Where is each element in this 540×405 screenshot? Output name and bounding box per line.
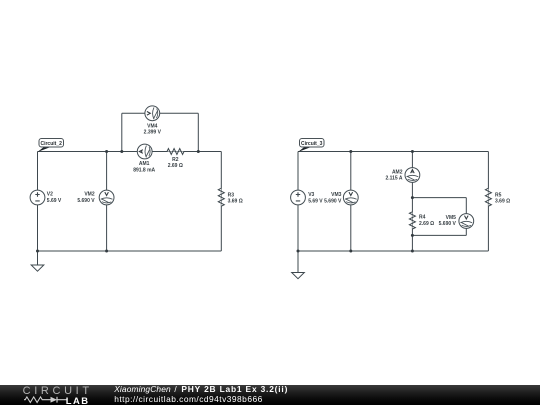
svg-text:5.69 V: 5.69 V — [47, 198, 62, 204]
wire: VM4 loop left vertical — [121, 113, 123, 151]
wire: VM4 loop top — [122, 112, 199, 114]
wire: left circuit top rail — [38, 151, 222, 153]
svg-text:2.69 Ω: 2.69 Ω — [419, 221, 434, 227]
wire: VM5 loop top — [412, 197, 466, 199]
svg-text:2.399 V: 2.399 V — [144, 130, 162, 136]
ground (right circuit) — [292, 251, 305, 279]
voltmeter VM4 (rotated) — [145, 106, 160, 121]
svg-text:V2: V2 — [47, 191, 53, 197]
footer bar — [0, 385, 540, 405]
wire: left circuit bottom rail — [38, 250, 222, 252]
CircuitLab logo text LAB — [66, 395, 90, 405]
svg-text:R2: R2 — [172, 157, 179, 163]
credit text — [114, 385, 288, 404]
svg-text:R4: R4 — [419, 214, 426, 220]
resistor R2 — [167, 149, 184, 155]
wire: VM5 loop bottom — [412, 234, 466, 236]
svg-text:2.69 Ω: 2.69 Ω — [168, 163, 183, 169]
wire: VM2 branch — [106, 152, 108, 252]
resistor R4 — [409, 212, 415, 229]
wire: VM5 loop right vertical — [465, 198, 467, 236]
wire: left circuit left rail — [37, 152, 39, 252]
svg-text:VM3: VM3 — [331, 192, 342, 198]
CircuitLab logo text CIRCUIT — [23, 385, 93, 397]
svg-text:5.690 V: 5.690 V — [324, 198, 342, 204]
wire: right circuit right rail (R5 branch) — [487, 152, 489, 252]
node flag Circuit_3 — [298, 139, 324, 153]
node flag Circuit_2 — [37, 139, 63, 153]
svg-text:3.69 Ω: 3.69 Ω — [495, 199, 510, 205]
wire: VM4 loop right vertical — [197, 113, 199, 151]
svg-text:AM1: AM1 — [139, 161, 150, 167]
svg-text:3.69 Ω: 3.69 Ω — [228, 199, 243, 205]
svg-text:VM2: VM2 — [84, 191, 95, 197]
wire: right circuit bottom rail — [298, 250, 488, 252]
svg-text:891.8 mA: 891.8 mA — [133, 167, 155, 173]
svg-text:5.690 V: 5.690 V — [439, 221, 457, 227]
svg-text:5.690 V: 5.690 V — [77, 198, 95, 204]
CircuitLab logo zigzag + diode — [23, 395, 69, 405]
ground (left circuit) — [31, 251, 44, 271]
ammeter AM2 — [405, 168, 420, 183]
svg-text:Circuit_3: Circuit_3 — [301, 141, 323, 147]
svg-text:2.115 A: 2.115 A — [385, 175, 402, 181]
wire: AM2/R4 branch — [411, 152, 413, 252]
svg-text:5.69 V: 5.69 V — [308, 198, 323, 204]
svg-text:V3: V3 — [308, 192, 314, 198]
svg-text:Circuit_2: Circuit_2 — [40, 141, 62, 147]
component labels — [47, 123, 510, 227]
voltmeter VM2 — [99, 190, 114, 205]
ammeter AM1 (rotated) — [137, 144, 152, 159]
voltage source V3 — [291, 190, 306, 205]
wire: VM3 branch — [350, 152, 352, 252]
wire: left circuit right rail (R3 branch) — [220, 152, 222, 252]
voltmeter VM3 — [343, 190, 358, 205]
resistor R5 — [485, 188, 491, 206]
svg-text:VM4: VM4 — [147, 123, 158, 129]
voltage source V2 — [30, 190, 45, 205]
junction dots — [36, 150, 414, 253]
wire: right circuit top rail — [298, 151, 488, 153]
resistor R3 — [218, 188, 224, 206]
voltmeter VM5 — [459, 214, 474, 229]
wire: right circuit left rail — [297, 152, 299, 252]
